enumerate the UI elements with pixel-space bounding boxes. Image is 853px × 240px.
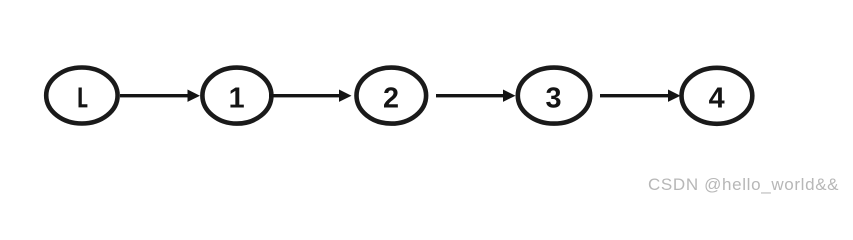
wire arrow 2 to 3	[436, 90, 516, 102]
node L (head ellipse)	[46, 68, 117, 124]
svg-text:2: 2	[383, 82, 399, 114]
node 3	[518, 68, 590, 124]
wire arrow L to 1	[120, 90, 200, 102]
wire arrow 1 to 2	[269, 90, 352, 102]
svg-text:4: 4	[709, 82, 725, 114]
svg-text:CSDN @hello_world&&: CSDN @hello_world&&	[648, 175, 839, 194]
wire arrow 3 to 4	[600, 90, 681, 102]
node 1	[202, 68, 271, 124]
node 4 (tail ellipse)	[682, 68, 753, 124]
svg-text:3: 3	[545, 82, 561, 114]
node 2	[357, 68, 427, 124]
svg-text:1: 1	[229, 82, 245, 114]
label L	[79, 88, 88, 108]
